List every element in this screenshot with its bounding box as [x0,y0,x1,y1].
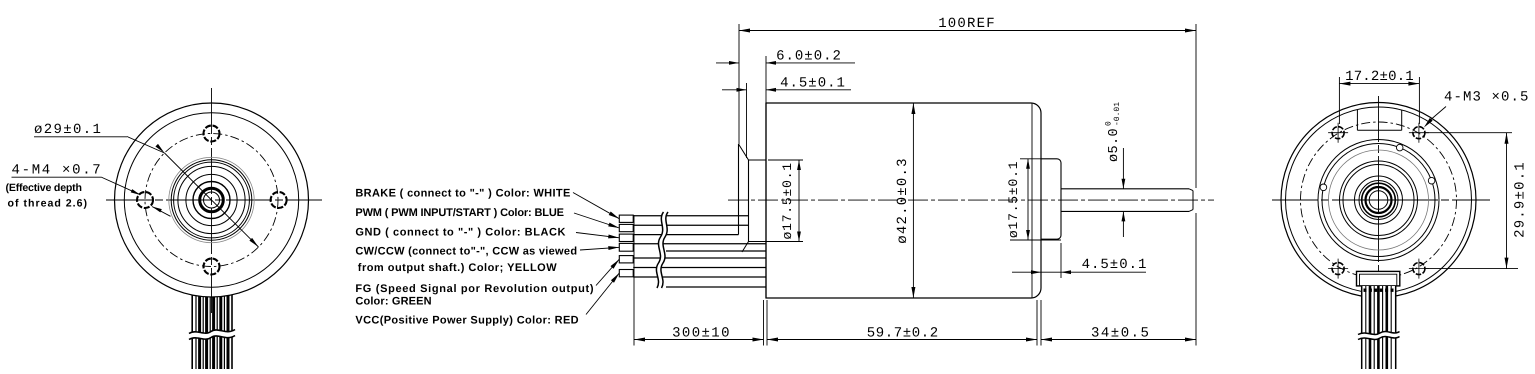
svg-text:59.7±0.2: 59.7±0.2 [867,325,939,341]
svg-text:4.5±0.1: 4.5±0.1 [1082,257,1148,273]
svg-text:from output shaft.) Color; Y: from output shaft.) Color; YELLOW [358,262,557,274]
svg-text:(Effective depth: (Effective depth [6,182,82,194]
svg-text:PWM ( PWM INPUT/START ) Colo: PWM ( PWM INPUT/START ) Color: BLUE [355,207,563,219]
svg-text:4-M3 ×0.5: 4-M3 ×0.5 [1444,90,1530,106]
svg-text:ø17.5±0.1: ø17.5±0.1 [1006,161,1021,238]
svg-text:4-M4 ×0.7: 4-M4 ×0.7 [12,163,103,179]
svg-text:6.0±0.2: 6.0±0.2 [776,48,842,64]
svg-text:ø5.0: ø5.0 [1107,128,1122,162]
svg-text:ø29±0.1: ø29±0.1 [34,122,102,138]
svg-text:FG (Speed Signal por Revolutio: FG (Speed Signal por Revolution output) [355,283,594,295]
svg-text:17.2±0.1: 17.2±0.1 [1345,69,1414,85]
svg-text:GND ( connect to "-" ) Color: GND ( connect to "-" ) Color: BLACK [355,227,566,239]
svg-text:4.5±0.1: 4.5±0.1 [780,76,846,92]
svg-text:ø42.0±0.3: ø42.0±0.3 [895,157,911,243]
svg-text:Color: GREEN: Color: GREEN [355,296,431,308]
svg-text:ø17.5±0.1: ø17.5±0.1 [780,162,795,239]
svg-text:VCC(Positive Power Supply) Col: VCC(Positive Power Supply) Color: RED [355,315,579,327]
svg-text:34±0.5: 34±0.5 [1091,325,1150,341]
svg-text:100REF: 100REF [938,16,996,32]
svg-text:29.9±0.1: 29.9±0.1 [1513,161,1529,238]
svg-text:of thread 2.6): of thread 2.6) [8,198,89,210]
svg-text:BRAKE ( connect to "-" ) Color: BRAKE ( connect to "-" ) Color: WHITE [355,188,570,200]
svg-text:CW/CCW (connect to"-", CCW as: CW/CCW (connect to"-", CCW as viewed [355,246,577,258]
svg-text:-0.01: -0.01 [1113,102,1122,126]
svg-text:300±10: 300±10 [672,325,731,341]
